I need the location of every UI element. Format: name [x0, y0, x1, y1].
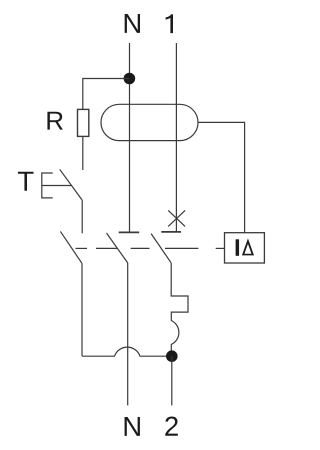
test button actuator	[42, 173, 53, 198]
pole 1 blade	[60, 231, 82, 263]
wire toroid to IΔ box	[198, 122, 245, 232]
IΔ box	[225, 233, 265, 263]
wire test switch to pole 1	[81, 200, 83, 234]
label 1 top	[166, 14, 173, 33]
wire dot to resistor branch	[83, 79, 130, 110]
pole 3 blade	[151, 234, 171, 263]
pole 3 contact bar	[161, 231, 181, 233]
wire bottom with hop over N	[82, 347, 172, 356]
test switch blade	[60, 169, 82, 199]
label N top	[125, 14, 140, 33]
label N bottom	[125, 417, 140, 436]
label 2 bottom	[165, 417, 178, 436]
wire line 1 top	[175, 43, 177, 232]
trip coil	[171, 263, 188, 351]
wire line 2 bottom	[171, 356, 173, 405]
pole 2 blade	[107, 233, 128, 263]
wire N pole down	[127, 263, 129, 406]
resistor R	[78, 109, 89, 136]
wire N line top	[129, 43, 131, 232]
label IΔ	[236, 239, 239, 256]
test button link	[42, 185, 72, 187]
label R	[47, 112, 62, 130]
label T	[18, 172, 34, 191]
linkage dashes	[76, 247, 88, 249]
pole 2 contact bar	[119, 231, 140, 233]
node junction bottom	[166, 350, 178, 362]
breaker X mark	[168, 210, 185, 226]
wire pole 1 down	[81, 263, 83, 356]
node junction top	[124, 73, 136, 85]
toroid CT	[101, 104, 198, 140]
wire resistor to test contact	[82, 136, 84, 170]
